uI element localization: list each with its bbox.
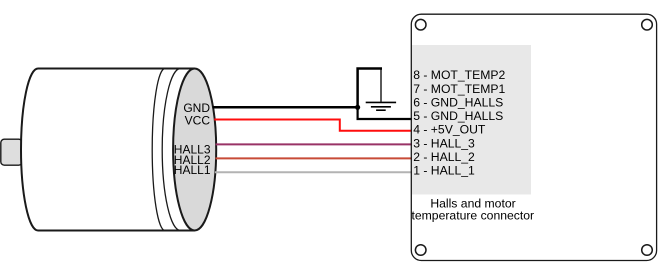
svg-text:6 - GND_HALLS: 6 - GND_HALLS: [413, 95, 503, 109]
svg-text:3 - HALL_3: 3 - HALL_3: [413, 136, 475, 150]
svg-text:7 - MOT_TEMP1: 7 - MOT_TEMP1: [413, 82, 505, 96]
wire HALL2: [216, 157, 413, 159]
junction: [355, 105, 360, 110]
wire GND to ground symbol: [358, 69, 382, 108]
screw hole top-right: [642, 19, 653, 30]
svg-text:4 - +5V_OUT: 4 - +5V_OUT: [413, 123, 486, 137]
motor ring 2: [162, 69, 180, 231]
svg-text:8 - MOT_TEMP2: 8 - MOT_TEMP2: [413, 68, 505, 82]
wire VCC: [214, 120, 412, 131]
motor shaft: [1, 139, 22, 165]
wire GND to pin 5: [358, 107, 412, 119]
svg-text:VCC: VCC: [185, 114, 211, 128]
svg-text:temperature connector: temperature connector: [411, 209, 534, 223]
motor body: [21, 69, 195, 231]
svg-text:2 - HALL_2: 2 - HALL_2: [413, 150, 475, 164]
connector pin block: [412, 45, 531, 195]
svg-text:5 - GND_HALLS: 5 - GND_HALLS: [413, 109, 503, 123]
svg-text:HALL1: HALL1: [174, 163, 211, 177]
wire HALL3: [216, 143, 412, 145]
screw hole top-left: [415, 19, 426, 30]
connector body: [411, 14, 656, 260]
motor ring 1: [152, 69, 165, 231]
ground symbol: [366, 69, 396, 111]
screw hole bottom-left: [415, 245, 426, 256]
wire HALL1: [215, 171, 412, 173]
wire GND: [213, 106, 358, 109]
motor face: [173, 69, 216, 231]
svg-text:1 - HALL_1: 1 - HALL_1: [413, 163, 475, 177]
screw hole bottom-right: [642, 245, 653, 256]
